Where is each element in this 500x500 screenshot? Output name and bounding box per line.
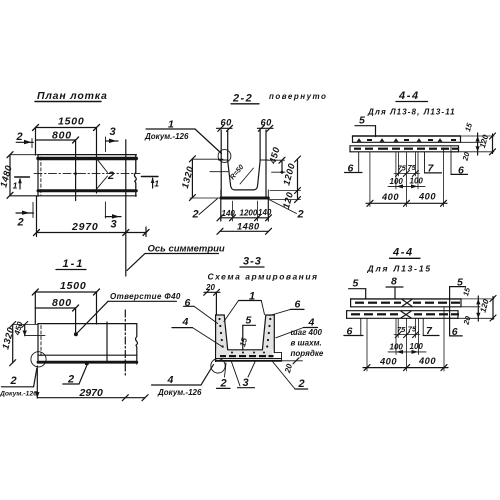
section mark 1 (plan left) xyxy=(15,176,30,178)
section mark 2 (plan bottom-left) xyxy=(16,212,34,214)
right wall outer xyxy=(265,130,267,197)
label 4 докум-126 (3-3) xyxy=(167,374,175,386)
svg-text:3: 3 xyxy=(111,219,117,231)
symmetry axis vertical xyxy=(125,140,127,276)
svg-text:3: 3 xyxy=(110,126,116,138)
rebar dashes slab 3-3 xyxy=(220,355,226,357)
svg-text:4-4: 4-4 xyxy=(392,247,414,259)
svg-text:1480: 1480 xyxy=(237,222,260,232)
svg-text:5: 5 xyxy=(353,278,360,290)
label 3 (3-3 bottom) xyxy=(243,377,249,389)
ось симметрии label xyxy=(148,244,225,255)
leader 2 (2-2 bottom-right) xyxy=(297,209,304,221)
svg-text:2: 2 xyxy=(17,217,24,229)
svg-text:Докум.-126: Докум.-126 xyxy=(157,388,202,397)
label 6 right (top 4-4) xyxy=(450,147,452,174)
3-3 right wall xyxy=(262,315,274,350)
slab band 1 (bottom 4-4) xyxy=(351,298,461,300)
label 4 right (3-3) xyxy=(308,317,316,329)
dims 100 100 (top 4-4) xyxy=(395,153,397,190)
dim 20 (bottom-right of 3-3) xyxy=(282,360,303,362)
plan body right edge xyxy=(134,155,136,197)
dim 120 (right of 2-2) xyxy=(297,191,299,200)
X mark band2 xyxy=(401,311,411,318)
dim 2970 (1-1) xyxy=(36,366,38,398)
X mark band1 xyxy=(402,299,412,306)
svg-text:шаг 400: шаг 400 xyxy=(291,328,323,337)
label 6 left (top 4-4) xyxy=(358,153,360,173)
dims 400 400 (top 4-4) xyxy=(369,153,371,207)
svg-text:3-3: 3-3 xyxy=(243,256,262,268)
svg-text:2: 2 xyxy=(16,131,23,143)
label 1 докум-126 xyxy=(168,119,175,131)
leader 2 (1-1 bottom) xyxy=(67,374,74,386)
dim 800 (1-1) xyxy=(35,307,75,309)
svg-text:2970: 2970 xyxy=(79,387,104,399)
svg-text:2: 2 xyxy=(10,375,17,387)
label 4 left (3-3) xyxy=(182,316,190,328)
dim 60 left xyxy=(221,118,233,128)
slab band 2 (bottom) xyxy=(350,145,459,147)
wall top caps xyxy=(219,159,229,161)
svg-text:6: 6 xyxy=(458,164,465,176)
svg-text:7: 7 xyxy=(428,163,435,175)
svg-text:75: 75 xyxy=(408,163,417,172)
svg-text:6: 6 xyxy=(295,299,302,311)
3-3 right lip xyxy=(274,352,281,354)
svg-text:6: 6 xyxy=(348,163,355,175)
label 5 + 15 (inside 3-3) xyxy=(246,315,253,327)
svg-text:Для Л13-15: Для Л13-15 xyxy=(367,264,432,274)
svg-text:100: 100 xyxy=(410,177,424,186)
svg-text:140: 140 xyxy=(222,209,236,218)
hidden dashed near left edge (1-1) xyxy=(40,326,42,357)
right wall inner xyxy=(253,130,260,190)
detail circle on left wall top xyxy=(218,150,231,163)
svg-text:2: 2 xyxy=(298,378,305,390)
svg-text:1200: 1200 xyxy=(240,209,258,218)
svg-text:1500: 1500 xyxy=(58,116,85,128)
plan body left edge xyxy=(37,155,39,197)
svg-text:75: 75 xyxy=(408,325,417,334)
svg-text:2970: 2970 xyxy=(71,221,99,233)
label 5 xyxy=(359,115,366,127)
3-3 slab xyxy=(217,350,273,359)
plan body bottom thick band xyxy=(38,189,136,192)
svg-text:2: 2 xyxy=(297,209,304,221)
title 1-1 xyxy=(63,258,85,270)
svg-text:800: 800 xyxy=(52,130,72,142)
detail circle (3-3 bottom-left) xyxy=(211,359,225,373)
dim 2970 (plan) xyxy=(37,232,147,234)
svg-text:8: 8 xyxy=(391,276,398,288)
svg-text:60: 60 xyxy=(221,118,233,128)
1-1 body xyxy=(38,323,137,325)
section mark 2 (plan top-left) xyxy=(16,141,33,143)
section mark 1 (plan right) xyxy=(141,176,158,178)
svg-text:4: 4 xyxy=(167,374,175,386)
slab band 2 (bottom 4-4) xyxy=(347,310,458,312)
left wall outer xyxy=(220,130,222,197)
label 7 (top 4-4) xyxy=(424,153,426,173)
title План лотка xyxy=(37,90,108,102)
dims 100 100 (bottom 4-4) xyxy=(395,319,397,355)
svg-text:800: 800 xyxy=(52,297,72,309)
plan centre axis dash-dot xyxy=(34,173,140,175)
dim 450 (right of 2-2) xyxy=(267,159,285,161)
svg-text:75: 75 xyxy=(397,325,406,334)
3-3 left wall xyxy=(216,315,228,350)
symmetry axis (1-1) xyxy=(124,310,126,377)
label 5 right (bottom 4-4) xyxy=(457,277,464,289)
plan body top thick band xyxy=(38,157,136,160)
leader 2 inside plan xyxy=(107,170,114,182)
dims 140 1200 140 (bottom of 2-2) xyxy=(220,217,269,219)
svg-text:5: 5 xyxy=(359,115,366,127)
label 1 with fork (3-3) xyxy=(249,291,255,303)
svg-text:400: 400 xyxy=(418,192,436,202)
svg-text:20: 20 xyxy=(205,283,215,292)
dims 75 75 (bottom 4-4) xyxy=(397,319,399,338)
title 3-3 xyxy=(243,256,262,268)
svg-text:6: 6 xyxy=(452,326,459,338)
dim 20 (top-left of 3-3) xyxy=(205,283,215,292)
dim 1480 (bottom of 2-2) xyxy=(220,230,269,232)
dim 1320 (left of 2-2) xyxy=(191,159,193,198)
svg-text:1-1: 1-1 xyxy=(63,258,85,270)
svg-text:75: 75 xyxy=(398,164,407,173)
svg-text:6: 6 xyxy=(347,326,354,338)
section mark 3 (plan top) xyxy=(105,137,107,152)
title 4-4 xyxy=(392,247,414,259)
svg-text:100: 100 xyxy=(410,342,424,351)
svg-text:400: 400 xyxy=(379,357,397,367)
svg-text:4: 4 xyxy=(308,317,316,329)
svg-text:1: 1 xyxy=(13,181,18,191)
svg-text:400: 400 xyxy=(381,192,399,202)
dim 1500 xyxy=(36,127,97,129)
dim 1320 (left of 1-1) xyxy=(12,325,14,363)
svg-text:140: 140 xyxy=(258,208,272,217)
svg-text:порядке: порядке xyxy=(291,349,324,358)
plan body bottom thin line xyxy=(10,195,136,197)
svg-text:Докум.-126: Докум.-126 xyxy=(144,132,189,141)
label 6 left (3-3) xyxy=(185,297,192,309)
label 6 right (bottom 4-4) xyxy=(450,335,463,337)
dim 1480 (left, rotated) xyxy=(9,155,11,196)
label 8 (bottom 4-4) xyxy=(391,276,398,288)
svg-text:100: 100 xyxy=(390,343,404,352)
dims 400 400 (bottom 4-4) xyxy=(366,319,368,372)
dim 1500 (1-1) xyxy=(35,291,96,293)
R=50 fillet label xyxy=(229,164,245,182)
svg-text:7: 7 xyxy=(426,325,433,337)
label 5 left (bottom 4-4) xyxy=(353,278,360,290)
svg-text:План лотка: План лотка xyxy=(37,90,108,102)
label 6 left (bottom 4-4) xyxy=(360,319,362,336)
svg-text:2-2: 2-2 xyxy=(232,93,253,105)
svg-text:4-4: 4-4 xyxy=(398,90,420,102)
label 7 (bottom 4-4) xyxy=(422,319,424,336)
rebar dashes band2 xyxy=(354,148,361,150)
svg-text:2: 2 xyxy=(192,209,199,221)
svg-text:2: 2 xyxy=(107,170,114,182)
slab band 1 (top) xyxy=(353,135,461,137)
subtitle Схема армирования xyxy=(208,272,319,282)
label 2 докум-126 (1-1 bottom-left) xyxy=(10,375,17,387)
leader 2 (2-2 bottom-left) xyxy=(192,209,199,221)
svg-text:4: 4 xyxy=(182,316,190,328)
svg-text:в шахм.: в шахм. xyxy=(291,339,322,348)
svg-text:2: 2 xyxy=(220,378,227,390)
svg-text:400: 400 xyxy=(418,356,436,366)
title 4-4 xyxy=(398,90,420,102)
subtitle Для Л13-8, Л13-11 xyxy=(367,107,456,116)
svg-text:100: 100 xyxy=(390,177,404,186)
svg-text:Ось симметрии: Ось симметрии xyxy=(148,244,225,255)
svg-text:Докум.-126: Докум.-126 xyxy=(0,391,37,398)
svg-text:Схема армирования: Схема армирования xyxy=(208,272,319,282)
title 2-2 повернуто xyxy=(232,93,253,105)
rebar dots right wall xyxy=(269,318,271,320)
dim 1200 (right of 2-2) xyxy=(297,159,299,191)
rebar dots left wall xyxy=(218,318,220,320)
label 2 (3-3 bottom-right) xyxy=(298,378,305,390)
dims 75 75 (top 4-4) xyxy=(398,153,400,177)
svg-text:60: 60 xyxy=(261,118,273,128)
hole dot on plan axis xyxy=(74,172,77,175)
slab 2-2 xyxy=(221,197,268,200)
label 2 (3-3 bottom-left) xyxy=(220,378,227,390)
svg-text:Отверстие Ф40: Отверстие Ф40 xyxy=(110,292,181,301)
detail circle (1-1 bottom-left) xyxy=(31,352,46,367)
plan body top thin line xyxy=(38,154,136,156)
plan hidden dashed line xyxy=(40,157,42,195)
rebar ticks band1 xyxy=(357,138,362,142)
left wall inner xyxy=(228,130,254,190)
hole level line on left wall xyxy=(210,171,228,173)
svg-text:1: 1 xyxy=(154,179,159,189)
section-3 trace vertical (1-1) xyxy=(106,322,108,361)
subtitle Для Л13-15 xyxy=(367,264,432,274)
right side dims (top 4-4) xyxy=(461,135,494,137)
dim 800 xyxy=(36,139,76,141)
section mark 3 (plan bottom) xyxy=(104,202,106,218)
dim 450 (left of 1-1) xyxy=(24,325,26,336)
note шаг 400 в шахм. порядке xyxy=(291,328,323,337)
svg-text:1500: 1500 xyxy=(60,280,87,292)
label Отверстие Ф40 xyxy=(110,292,181,301)
dim 60 right xyxy=(261,118,273,128)
label 6 right (3-3) xyxy=(295,299,302,311)
svg-text:6: 6 xyxy=(185,297,192,309)
right side dims (bottom 4-4) xyxy=(461,298,494,300)
svg-text:повернуто: повернуто xyxy=(269,92,327,101)
svg-text:Для Л13-8, Л13-11: Для Л13-8, Л13-11 xyxy=(367,107,456,116)
